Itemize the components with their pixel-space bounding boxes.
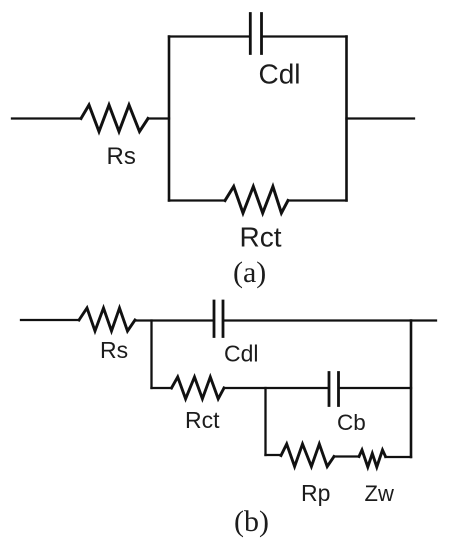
wire right vertical (b) (410, 321, 413, 458)
wire top rail right (b) (224, 319, 436, 321)
resistor Rs (circuit b) (79, 308, 135, 331)
resistor Rct (circuit a) (225, 187, 288, 214)
resistor Rp (circuit b) (281, 444, 334, 467)
wire Zw to right vertical (b) (386, 456, 412, 458)
wire bottom rail right (a) (288, 199, 347, 201)
wire left vertical of parallel box (a) (168, 37, 171, 201)
wire node vertical from top rail to row2 (b) (150, 321, 152, 389)
svg-text:Zw: Zw (365, 481, 394, 506)
wire row3 left (b) (266, 454, 282, 456)
wire Rs to node (a) (148, 117, 169, 119)
wire node vertical from row2 to row3 (b) (264, 388, 266, 455)
svg-text:(a): (a) (233, 256, 266, 289)
svg-text:Rct: Rct (240, 222, 282, 253)
svg-text:Cdl: Cdl (259, 58, 301, 89)
wire row2 left (b) (152, 387, 172, 389)
wire top rail right (a) (263, 35, 347, 37)
resistor Rs (circuit a) (81, 105, 148, 132)
svg-text:Rs: Rs (100, 337, 128, 363)
wire input (b) (21, 319, 79, 321)
svg-text:Rs: Rs (107, 143, 136, 170)
svg-text:Rp: Rp (301, 480, 330, 506)
svg-text:Cdl: Cdl (224, 341, 259, 367)
wire input (a) (12, 117, 81, 119)
Warburg element Zw (circuit b) (359, 450, 386, 467)
wire row2 right (b) (340, 387, 412, 389)
svg-text:Rct: Rct (185, 407, 220, 433)
wire right vertical of parallel box (a) (345, 37, 348, 201)
capacitor Cdl (circuit b) (214, 301, 223, 337)
capacitor Cdl (circuit a) (250, 14, 261, 54)
wire top rail left (a) (169, 35, 249, 37)
wire row2 middle (b) (224, 387, 328, 389)
resistor Rct (circuit b) (172, 377, 225, 399)
wire output (a) (347, 117, 415, 119)
svg-text:(b): (b) (234, 505, 269, 538)
wire Rp to Zw (b) (334, 455, 359, 457)
wire bottom rail left (a) (169, 199, 225, 201)
capacitor Cb (circuit b) (329, 373, 339, 406)
wire Rs to top rail (b) (135, 319, 213, 321)
svg-text:Cb: Cb (337, 410, 366, 435)
